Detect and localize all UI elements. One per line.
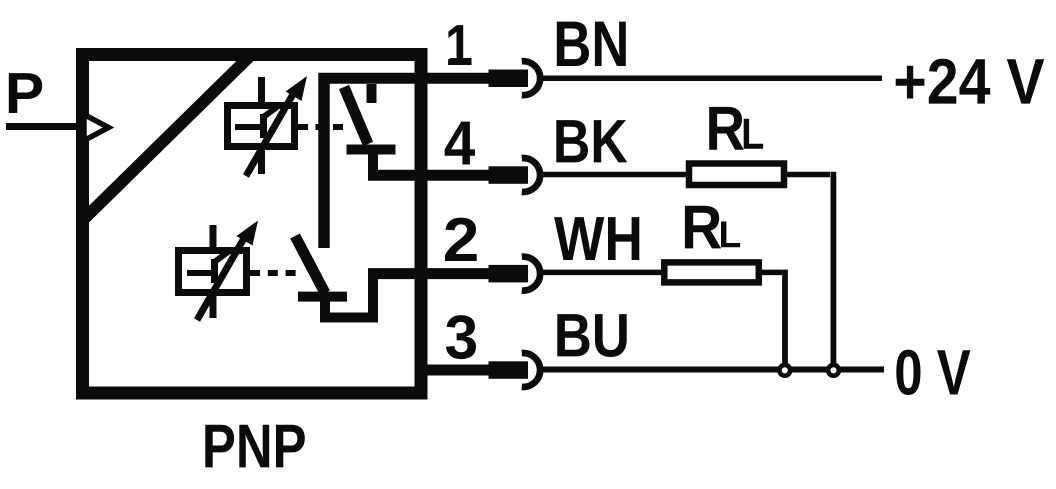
load resistor RL1 bbox=[689, 164, 784, 186]
wire: RL2 to corner bbox=[759, 270, 782, 276]
wire label BN bbox=[557, 22, 626, 66]
wire: S2 crossbar down bbox=[320, 297, 330, 318]
wire: RL1 to corner bbox=[784, 172, 830, 178]
wire: pin 4 wire to connector bbox=[368, 170, 489, 181]
sensor body box U1 bbox=[83, 55, 422, 394]
switch S1 fixed contact stub bbox=[367, 84, 377, 103]
wire: S1 crossbar down to pin 4 wire bbox=[368, 150, 378, 176]
wire: pin 3 wire from box edge to connector bbox=[416, 365, 489, 376]
label 0 V bbox=[896, 350, 970, 396]
wire label WH bbox=[554, 217, 639, 260]
wire: S2 jog up to pin 2 level bbox=[368, 269, 378, 323]
pressure input arrow (open triangle) bbox=[84, 115, 109, 141]
wire label BK bbox=[556, 120, 627, 162]
wire: pin 1 wire inside box to connector bbox=[319, 73, 490, 84]
wire: BU lead to 0 V bbox=[540, 367, 884, 373]
wire: pressure input line bbox=[6, 123, 83, 130]
wire: S2 bottom jog right bbox=[320, 313, 373, 323]
pin 2 connector plug bbox=[489, 257, 541, 291]
junction circle right on 0 V rail bbox=[828, 365, 839, 376]
wire: pin 2 wire to connector bbox=[368, 268, 489, 279]
diagonal separator line inside sensor box bbox=[84, 56, 250, 219]
threshold adjuster symbol A2 (lower) bbox=[179, 225, 247, 318]
wire: BK lead to load resistor RL1 bbox=[540, 172, 689, 178]
label RL2 bbox=[685, 206, 740, 249]
wire: WH lead to load resistor RL2 bbox=[540, 270, 664, 276]
wire: BN lead to +24 V bbox=[540, 75, 882, 81]
serif foot of pin number 1 bbox=[450, 58, 472, 65]
pin number 4 bbox=[445, 122, 475, 165]
pin number 2 bbox=[445, 218, 477, 261]
switch S2 output crossbar bbox=[298, 292, 347, 302]
threshold adjuster symbol A1 (upper) bbox=[228, 77, 295, 174]
wire: RL2 drop to 0 V rail bbox=[782, 270, 788, 364]
load resistor RL2 bbox=[664, 262, 759, 282]
label RL1 bbox=[709, 107, 763, 150]
junction circle left on 0 V rail bbox=[779, 365, 790, 376]
pin 3 connector plug bbox=[489, 353, 541, 387]
adjustability arrow of A1 bbox=[246, 76, 307, 176]
switch S2 moving arm bbox=[295, 236, 325, 293]
wire: internal supply line down from pin1 wire bbox=[318, 73, 330, 248]
wire: RL1 drop to 0 V rail bbox=[831, 172, 837, 364]
adjustability arrow of A2 bbox=[197, 221, 258, 321]
pin 1 connector plug bbox=[489, 61, 541, 95]
dashed actuation link upper bbox=[298, 124, 349, 130]
switch S1 moving arm bbox=[344, 87, 368, 144]
pin number 1 bbox=[448, 25, 471, 65]
wire label BU bbox=[557, 314, 626, 357]
label P (pressure input) bbox=[9, 73, 42, 113]
label +24 V bbox=[896, 59, 1044, 104]
pin number 3 bbox=[446, 315, 476, 359]
switch S1 output crossbar bbox=[347, 145, 396, 155]
label PNP bbox=[205, 425, 304, 468]
dashed actuation link lower bbox=[250, 270, 298, 276]
pin 4 connector plug bbox=[489, 158, 541, 192]
